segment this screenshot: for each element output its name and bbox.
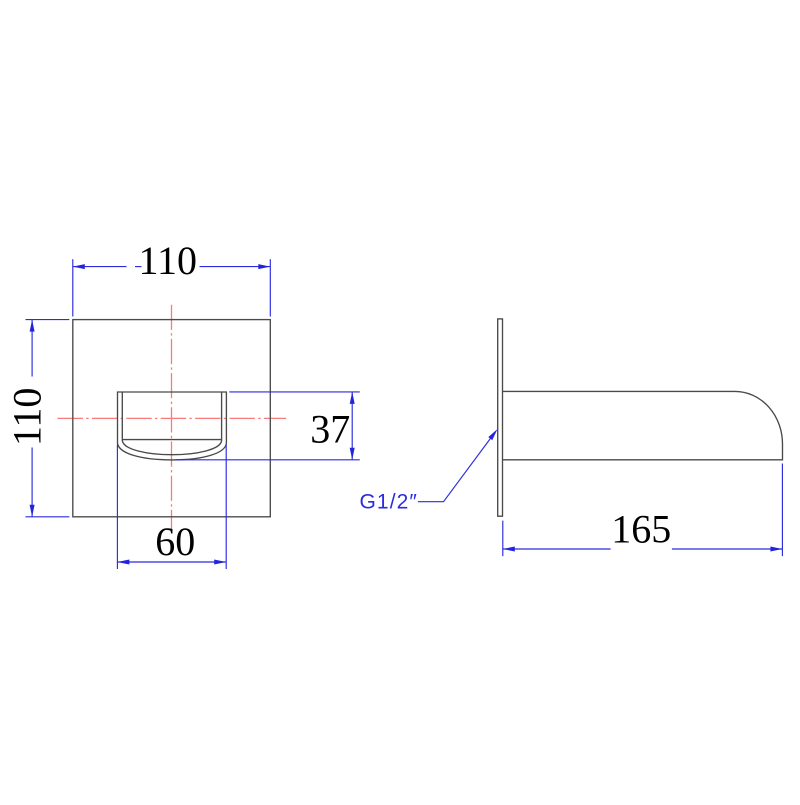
svg-text:60: 60 xyxy=(155,519,195,564)
svg-text:165: 165 xyxy=(611,507,671,552)
svg-text:110: 110 xyxy=(5,388,50,447)
svg-text:110: 110 xyxy=(138,238,197,283)
svg-text:37: 37 xyxy=(310,407,350,452)
svg-text:G1/2″: G1/2″ xyxy=(360,491,418,514)
